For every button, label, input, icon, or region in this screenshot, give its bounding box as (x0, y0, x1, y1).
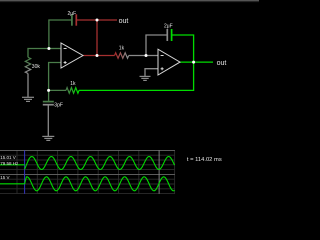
svg-text:15 V: 15 V (0, 175, 9, 180)
svg-text:3pF: 3pF (54, 102, 63, 108)
svg-text:1k: 1k (70, 81, 76, 87)
svg-text:1k: 1k (119, 46, 125, 52)
svg-text:15.01 V: 15.01 V (0, 155, 16, 160)
svg-text:out: out (217, 60, 227, 67)
svg-text:t = 114.02 ms: t = 114.02 ms (187, 157, 222, 163)
svg-text:30k: 30k (32, 64, 41, 70)
svg-text:79.58 Hz: 79.58 Hz (0, 161, 19, 166)
svg-text:out: out (119, 18, 129, 25)
svg-text:2μF: 2μF (164, 24, 173, 30)
svg-text:2μF: 2μF (68, 11, 77, 17)
